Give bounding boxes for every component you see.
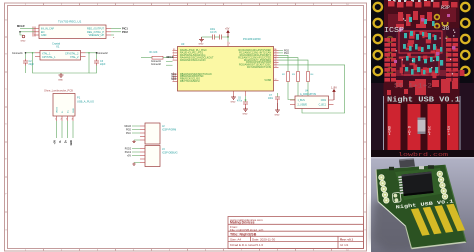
small parts top edge <box>389 167 394 170</box>
chip pins <box>398 176 404 194</box>
crystal X1 <box>40 42 81 61</box>
node SW labels <box>171 74 177 81</box>
ground below U3 left <box>231 96 236 99</box>
svg-text:VUSB: VUSB <box>264 79 271 82</box>
svg-text:▸GND: ▸GND <box>389 125 393 135</box>
node MCLR <box>19 31 21 33</box>
svg-text:C7: C7 <box>269 95 273 97</box>
U3 pins right <box>274 51 279 81</box>
pads left column <box>379 175 389 203</box>
pads right column <box>437 171 448 199</box>
svg-text:GND: GND <box>243 114 248 116</box>
J2 pins <box>140 126 145 140</box>
svg-text:R3: R3 <box>292 74 296 76</box>
svg-text:Title: NightUSB: Title: NightUSB <box>230 233 257 237</box>
svg-text:SW3: SW3 <box>171 79 177 81</box>
svg-text:Crystal: Crystal <box>52 42 60 46</box>
svg-text:CRYSTAL_2: CRYSTAL_2 <box>65 52 79 55</box>
svg-text:100n: 100n <box>268 98 274 100</box>
svg-text:R1 10K: R1 10K <box>150 51 158 54</box>
svg-text:470n: 470n <box>237 101 243 103</box>
svg-text:PGC: PGC <box>284 53 289 55</box>
svg-text:A_CIRCUITOS: A_CIRCUITOS <box>300 93 316 96</box>
ground <box>59 73 64 77</box>
svg-text:ICSP-PGRM: ICSP-PGRM <box>162 129 176 132</box>
svg-text:1: 1 <box>229 43 231 45</box>
ground <box>243 107 248 111</box>
svg-text:C6: C6 <box>238 98 242 100</box>
svg-text:lowbrd.com: lowbrd.com <box>398 151 449 158</box>
svg-text:R2: R2 <box>282 74 286 76</box>
capacitor C6 below U3 <box>245 96 247 102</box>
svg-text:PIC2: PIC2 <box>122 30 128 34</box>
svg-text:22pF: 22pF <box>29 63 35 66</box>
J3 pins <box>140 149 145 163</box>
svg-text:PGD2: PGD2 <box>125 149 132 151</box>
svg-text:File: nightUSB.kicad_sch: File: nightUSB.kicad_sch <box>230 228 264 232</box>
svg-text:GND: GND <box>70 140 73 146</box>
capacitors C4 C5 above U3 <box>213 35 222 40</box>
svg-text:E: E <box>364 159 366 161</box>
svg-text:B: B <box>364 54 366 56</box>
wires crystal <box>26 53 97 73</box>
wires U1 right <box>111 29 121 35</box>
svg-text:GND: GND <box>58 80 63 82</box>
usb fingers <box>388 104 459 150</box>
svg-text:12: 12 <box>275 79 277 81</box>
svg-text:ICSP-DEBUG: ICSP-DEBUG <box>162 152 178 155</box>
svg-text:13: 13 <box>275 66 277 68</box>
svg-text:PIC18F14K50: PIC18F14K50 <box>243 37 261 41</box>
svg-text:MCLR: MCLR <box>167 56 174 59</box>
top connector <box>399 160 415 168</box>
title block <box>228 217 364 249</box>
svg-text:CIR1: CIR1 <box>321 100 327 102</box>
svg-text:MCLR: MCLR <box>17 24 25 28</box>
wires P1 down <box>57 121 74 138</box>
usb connector U4 <box>295 90 329 109</box>
svg-text:22pF: 22pF <box>100 63 106 66</box>
svg-text:XTAL_1: XTAL_1 <box>42 52 51 55</box>
svg-text:RC7/AN9/SDO/T1OSI: RC7/AN9/SDO/T1OSI <box>247 66 271 69</box>
svg-text:A: A <box>5 19 7 22</box>
power +5V right <box>333 90 335 101</box>
svg-text:VREGEN/_UP: VREGEN/_UP <box>89 34 105 37</box>
X1 pins <box>35 53 86 57</box>
svg-text:ICSP: ICSP <box>384 27 404 35</box>
svg-text:100n: 100n <box>210 29 216 31</box>
capacitor C2 <box>23 59 28 66</box>
resistor R1 <box>150 51 164 59</box>
svg-text:KiCad E.D.A. kicad 5.1.6: KiCad E.D.A. kicad 5.1.6 <box>230 243 263 247</box>
svg-text:GND: GND <box>199 44 204 46</box>
svg-text:1_BV: 1_BV <box>331 87 337 90</box>
svg-text:U3: U3 <box>181 42 185 46</box>
svg-text:Connect2: Connect2 <box>97 52 108 55</box>
svg-text:C4 C5: C4 C5 <box>210 32 217 34</box>
3d render bottom-right <box>371 157 474 252</box>
svg-text:D-: D- <box>62 110 64 113</box>
svg-text:PGD: PGD <box>126 130 131 132</box>
USB plug P1 <box>44 89 94 117</box>
svg-text:C_BC1: C_BC1 <box>319 105 327 107</box>
svg-text:USB_A_PLUG: USB_A_PLUG <box>77 100 94 104</box>
U3 pins top/bottom <box>228 42 246 97</box>
svg-text:1_BUS: 1_BUS <box>298 100 306 102</box>
sheet frame <box>5 3 367 251</box>
resistor R4 <box>307 72 310 82</box>
plated holes <box>374 3 470 75</box>
svg-text:+5V: +5V <box>54 140 57 145</box>
svg-text:Connect1: Connect1 <box>151 60 162 63</box>
pcb layout photo top-right <box>371 0 474 158</box>
svg-text:S5 1+1+2: S5 1+1+2 <box>394 83 433 90</box>
svg-text:GND: GND <box>41 34 47 37</box>
svg-text:a: a <box>113 37 115 39</box>
svg-text:Size: A4: Size: A4 <box>230 238 241 242</box>
svg-text:RA5/AN4/OSC1/CLKIN: RA5/AN4/OSC1/CLKIN <box>180 59 206 62</box>
chip body <box>401 171 433 196</box>
svg-text:R3P: R3P <box>441 5 450 11</box>
svg-text:Night USB V0.1: Night USB V0.1 <box>387 97 460 105</box>
svg-text:Rev: v0.1: Rev: v0.1 <box>340 238 354 242</box>
svg-text:D: D <box>5 124 7 126</box>
svg-text:GND: GND <box>275 115 280 117</box>
wire vdd <box>202 37 229 42</box>
resistor R3 <box>297 72 300 82</box>
gold fingers <box>411 204 465 236</box>
U3 pins left <box>173 51 178 82</box>
svg-text:+5V: +5V <box>225 28 230 31</box>
svg-text:C: C <box>364 89 366 91</box>
svg-text:Date: 2020-11-30: Date: 2020-11-30 <box>252 238 275 242</box>
smd pads <box>384 28 460 80</box>
top pads <box>388 1 458 8</box>
capacitor C3 <box>94 59 99 66</box>
svg-text:+5V: +5V <box>127 156 132 158</box>
svg-text:▸+5V: ▸+5V <box>448 125 452 135</box>
svg-text:D-: D- <box>59 140 62 143</box>
svg-text:D+: D+ <box>65 139 68 143</box>
svg-text:VBUS: VBUS <box>57 107 59 113</box>
svg-text:P1: P1 <box>77 96 81 100</box>
svg-text:XTAL_2: XTAL_2 <box>70 56 79 59</box>
svg-text:E: E <box>5 159 7 161</box>
ground <box>275 103 280 112</box>
wire connects <box>166 62 173 65</box>
svg-text:PGC: PGC <box>126 133 131 135</box>
wire R1 to U3 <box>141 57 173 59</box>
ground <box>22 35 25 38</box>
svg-text:GND: GND <box>21 41 26 43</box>
ground <box>199 37 204 42</box>
svg-text:A: A <box>364 19 366 22</box>
regulator U1 <box>39 20 106 39</box>
svg-text:GND: GND <box>231 102 236 104</box>
wires right of U3 to usb conn <box>279 55 345 113</box>
svg-text:38: 38 <box>442 25 450 32</box>
svg-text:B: B <box>5 54 7 56</box>
svg-text:D: D <box>364 124 366 126</box>
svg-text:R4: R4 <box>311 74 315 76</box>
U1 pins left <box>34 29 111 35</box>
resistor R2 <box>287 72 290 82</box>
svg-text:G: G <box>364 230 366 232</box>
power +5V <box>227 31 229 38</box>
connector J3 ICSP <box>145 146 178 167</box>
svg-text:GND: GND <box>73 108 75 113</box>
microcontroller U3 PIC18F14K50 <box>178 37 274 91</box>
ground <box>132 140 135 143</box>
svg-text:MCLR: MCLR <box>124 126 131 128</box>
svg-text:▸D-D: ▸D-D <box>409 125 413 135</box>
svg-text:Connect1: Connect1 <box>12 52 23 55</box>
capacitor C7 left of U4 <box>277 93 279 97</box>
svg-text:C: C <box>5 89 7 91</box>
board outline <box>376 165 466 249</box>
ground <box>132 163 135 166</box>
wire MCLR <box>20 29 34 35</box>
svg-text:PGC2: PGC2 <box>125 152 132 154</box>
svg-text:Id: 1/1: Id: 1/1 <box>340 243 349 247</box>
node <box>32 52 34 54</box>
P1 pins <box>57 116 74 121</box>
shadow <box>372 192 462 252</box>
svg-text:CRYSTAL_1: CRYSTAL_1 <box>42 56 56 59</box>
svg-text:▸PGC: ▸PGC <box>429 125 433 135</box>
pads bottom-left group <box>392 192 401 202</box>
board edge highlights <box>376 165 466 249</box>
svg-text:TLV702-REG_U1: TLV702-REG_U1 <box>58 20 82 24</box>
connector J2 ICSP <box>145 123 176 144</box>
U4 pins <box>290 100 334 105</box>
wires U3 right top labels <box>279 51 284 53</box>
svg-text:Ohne_Loetbruecke_PCB: Ohne_Loetbruecke_PCB <box>44 89 73 93</box>
svg-text:Connect2: Connect2 <box>151 63 162 66</box>
svg-text:G: G <box>5 230 7 232</box>
svg-text:2_USB/D: 2_USB/D <box>298 105 308 107</box>
capacitor C1 <box>33 27 35 37</box>
svg-text:RB7/TX/CK/MOSI: RB7/TX/CK/MOSI <box>180 80 200 83</box>
